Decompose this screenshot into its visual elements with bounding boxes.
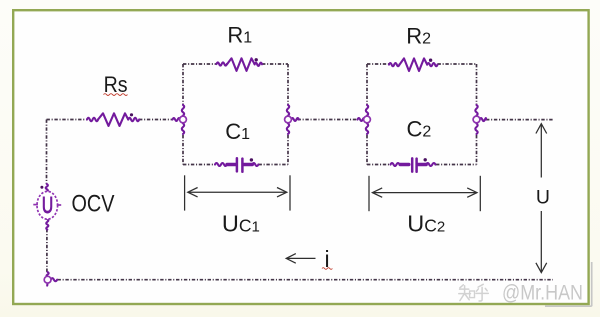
node D junction circle — [473, 116, 480, 123]
Uc2 dimension line — [372, 192, 477, 194]
capacitor C1 wavy lead right — [252, 163, 258, 166]
U up arrow shaft — [540, 125, 542, 178]
wire: Rs to node A — [139, 119, 173, 121]
node A vertical squiggle above — [182, 105, 184, 116]
capacitor C1 dot — [250, 158, 253, 161]
Uc2 left extension bar — [368, 176, 370, 211]
watermark char hu (乎) — [478, 284, 483, 287]
wire: left vertical lower segment (below OCV) — [46, 229, 48, 272]
node B squiggles (box1 right at main wire) — [287, 105, 289, 116]
capacitor C1 thick lead right — [243, 163, 252, 166]
wire: box2 right edge upper — [476, 64, 478, 105]
node A junction circle — [180, 116, 187, 123]
wire wavy right of node D — [480, 118, 486, 121]
capacitor C2 dot — [424, 158, 427, 161]
svg-text:Rs: Rs — [104, 72, 128, 97]
resistor Rs lead right (wavy) — [128, 118, 139, 121]
node C squiggles (box2 left at main wire) — [366, 105, 368, 116]
wire: box1 top edge left part — [183, 63, 217, 65]
resistor Rs lead left (wavy) — [87, 118, 98, 121]
wire: top right stub — [486, 119, 553, 121]
OCV bottom wavy connection — [46, 219, 48, 229]
resistor R2 dot — [429, 59, 432, 62]
resistor Rs dot — [130, 113, 133, 116]
wire: box1 left edge lower — [182, 135, 184, 165]
Uc2 left arrowhead — [372, 188, 382, 197]
node E junction circle (bottom left) — [44, 276, 51, 283]
junction E tail below — [46, 283, 48, 286]
wire: box1 top edge right part — [262, 63, 288, 65]
resistor R1 lead left (wavy) — [217, 62, 227, 65]
capacitor C1 right plate — [241, 159, 244, 172]
Uc2 right arrowhead — [467, 188, 477, 197]
spellcheck squiggle under Rs — [104, 94, 128, 96]
node A vertical squiggle below — [182, 123, 184, 134]
wire wavy right of node B — [291, 118, 299, 121]
wire: box2 top edge left part — [367, 63, 389, 65]
node B junction circle — [285, 116, 292, 123]
Uc1 dimension line — [188, 191, 287, 193]
wire: bottom return wire — [58, 279, 554, 281]
bottom wire wavy start — [51, 278, 58, 281]
current i arrow shaft — [287, 257, 316, 259]
OCV top wavy connection — [46, 184, 48, 192]
svg-text:OCV: OCV — [72, 190, 115, 217]
resistor R1 dot — [255, 58, 258, 61]
Uc1 left arrowhead — [188, 188, 198, 197]
wire: box2 right edge lower — [476, 135, 478, 165]
wire: box2 left edge upper — [366, 64, 368, 105]
Uc2 right extension bar — [479, 176, 481, 211]
U up arrowhead — [536, 124, 547, 134]
OCV top-left dot — [40, 186, 43, 189]
wire: box1 bottom edge right part — [259, 164, 289, 166]
capacitor C2 wavy lead right — [426, 163, 435, 166]
wire: box1 right edge upper — [287, 64, 289, 105]
resistor R1 lead right (wavy) — [255, 63, 262, 66]
U down arrow shaft — [540, 211, 542, 272]
resistor R1 zigzag — [227, 58, 255, 71]
capacitor C2 thick lead left — [400, 163, 409, 166]
spellcheck squiggle under i — [322, 268, 332, 270]
wire: box2 bottom edge left part — [367, 164, 391, 166]
wire: box2 top edge right part — [438, 63, 477, 65]
watermark char zhi (知) — [460, 285, 463, 288]
capacitor C2 wavy lead left — [391, 163, 400, 166]
wire: left vertical upper segment — [46, 120, 48, 185]
node D squiggles (box2 right at main wire) — [475, 105, 477, 116]
wire: box1 bottom edge left part — [183, 164, 215, 166]
node A wavy approach — [173, 118, 181, 121]
U down arrowhead — [536, 263, 547, 273]
OCV left tick — [33, 204, 38, 206]
node C junction circle — [364, 116, 371, 123]
resistor R2 lead left (wavy) — [389, 63, 399, 66]
Uc1 right arrowhead — [277, 188, 287, 197]
Uc1 right extension bar — [289, 175, 291, 210]
OCV right tick — [57, 204, 61, 206]
capacitor C2 right plate — [415, 159, 418, 172]
resistor R2 lead right (wavy) — [427, 63, 437, 66]
wire: box2 left edge lower — [366, 135, 368, 165]
wire: box1 right edge lower — [287, 135, 289, 165]
current i arrowhead — [286, 254, 296, 264]
Uc1 left extension bar — [184, 175, 186, 210]
capacitor C1 thick lead left — [227, 163, 236, 166]
capacitor C2 left plate — [411, 158, 414, 171]
wire wavy left of node C — [358, 118, 366, 121]
wire: main top-left horizontal from corner to Rs — [47, 119, 88, 121]
resistor R2 zigzag — [400, 58, 428, 71]
wire: box2 bottom edge right part — [436, 164, 477, 166]
wire: middle link between boxes — [298, 119, 358, 121]
svg-text:U: U — [536, 187, 550, 209]
resistor Rs zigzag — [98, 113, 128, 126]
capacitor C1 left plate — [236, 158, 239, 171]
wire: box1 left edge upper — [182, 64, 184, 105]
capacitor C2 thick lead right — [418, 163, 427, 166]
capacitor C1 wavy lead left — [215, 163, 227, 166]
svg-text:U: U — [42, 193, 53, 219]
junction E wavy above bottom-left node — [47, 272, 49, 277]
svg-text:@Mr.HAN: @Mr.HAN — [502, 282, 583, 305]
voltage source OCV ellipse (dashed) — [37, 191, 58, 219]
